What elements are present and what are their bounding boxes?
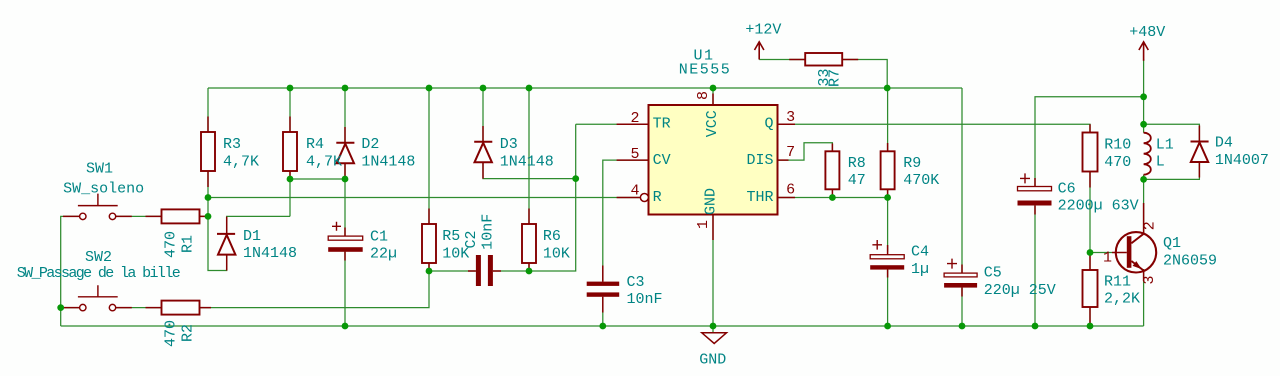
- diode D1: [217, 217, 235, 271]
- wire R2 right: [200, 307, 205, 309]
- svg-text:R11: R11: [1104, 273, 1131, 290]
- svg-text:R: R: [653, 189, 662, 206]
- svg-text:R6: R6: [543, 228, 561, 245]
- svg-text:NE555: NE555: [679, 61, 732, 78]
- junction R5 C2 node: [426, 268, 433, 275]
- U1 pin 5 stub: [617, 159, 649, 161]
- wire R5 node to C2: [429, 270, 476, 272]
- transistor Q1: [1112, 203, 1156, 281]
- wire R1 right to node: [200, 215, 209, 217]
- svg-text:TR: TR: [653, 116, 671, 133]
- svg-text:5: 5: [630, 146, 639, 163]
- svg-text:+48V: +48V: [1129, 24, 1165, 41]
- wire L1 node to Q1 collector: [1143, 179, 1145, 233]
- wire R9 column top: [887, 88, 889, 151]
- svg-text:2: 2: [1141, 221, 1158, 230]
- wire node to D2 bottom: [290, 178, 345, 180]
- svg-text:SW_soleno: SW_soleno: [63, 181, 144, 198]
- svg-text:1N4007: 1N4007: [1215, 152, 1269, 169]
- svg-text:D1: D1: [243, 228, 261, 245]
- wire C5 column from top bus: [961, 88, 963, 273]
- svg-text:4,7K: 4,7K: [306, 153, 342, 170]
- capacitor C2: [468, 255, 501, 286]
- svg-text:D2: D2: [361, 136, 379, 153]
- wire +48V stem lower: [1143, 59, 1145, 124]
- junction top bus R6: [526, 85, 533, 92]
- svg-text:470K: 470K: [903, 172, 939, 189]
- wire R6 column top: [528, 88, 530, 224]
- svg-text:1µ: 1µ: [911, 261, 929, 278]
- svg-text:Q1: Q1: [1163, 235, 1181, 252]
- wire R4 column top: [289, 88, 291, 132]
- junction top bus R7: [884, 85, 891, 92]
- svg-text:C2: C2: [463, 230, 480, 248]
- svg-text:1N4148: 1N4148: [500, 154, 554, 171]
- svg-text:22µ: 22µ: [370, 246, 397, 263]
- svg-text:SW1: SW1: [86, 161, 113, 178]
- wire R pin 4 line: [208, 197, 640, 199]
- wire base node to Q1 base: [1090, 252, 1112, 254]
- capacitor C3: [587, 266, 620, 313]
- resistor R11: [1083, 270, 1098, 307]
- wire node to D4: [1144, 124, 1200, 141]
- wire D2 column top: [344, 88, 346, 143]
- diode D2: [336, 127, 354, 179]
- svg-text:3: 3: [1141, 275, 1158, 284]
- wire C5 bottom to bus: [961, 288, 963, 326]
- svg-text:THR: THR: [746, 189, 773, 206]
- wire D2 bottom through C1 top: [344, 163, 346, 237]
- wire CV pin 5 to C3: [603, 160, 649, 282]
- junction TR node: [572, 175, 579, 182]
- svg-text:L1: L1: [1156, 137, 1174, 154]
- U1 pin 4 inversion circle: [640, 194, 648, 202]
- wire DIS pin 7 jog to R8: [778, 143, 833, 160]
- wire C2 to R6 node: [493, 270, 529, 272]
- capacitor C4: [870, 240, 904, 278]
- wire R11 bottom to bus: [1089, 307, 1091, 326]
- op-amp U1 NE555 body: [649, 105, 778, 215]
- junction R3 bottom pin4: [205, 194, 212, 201]
- diode D4: [1191, 126, 1209, 178]
- power +12V symbol: [755, 42, 764, 60]
- svg-text:SW_Passage de la bille: SW_Passage de la bille: [17, 265, 181, 282]
- svg-text:470: 470: [162, 231, 179, 258]
- diode D3: [474, 126, 492, 179]
- wire C1 bottom to bus: [344, 251, 346, 326]
- svg-text:10K: 10K: [543, 245, 570, 262]
- svg-text:GND: GND: [703, 188, 720, 215]
- wire R4 bottom to node: [289, 171, 291, 216]
- svg-text:C6: C6: [1058, 180, 1076, 197]
- wire top bus: [208, 87, 962, 89]
- U1 pin 6 stub: [778, 197, 796, 199]
- svg-text:2,2K: 2,2K: [1104, 291, 1140, 308]
- wire GND stem: [712, 326, 714, 333]
- svg-text:C4: C4: [911, 244, 929, 261]
- resistor R5: [422, 224, 436, 263]
- svg-text:C5: C5: [984, 265, 1002, 282]
- wire VCC pin 8: [712, 88, 714, 105]
- wire Q1 emitter to bus: [1143, 269, 1145, 326]
- wire Q pin 3 to R10: [778, 124, 1091, 132]
- svg-text:220µ 25V: 220µ 25V: [984, 282, 1056, 299]
- power +48V symbol: [1139, 42, 1148, 61]
- wire R7 right to top bus: [842, 60, 887, 89]
- resistor R2: [162, 301, 200, 315]
- wire R5 column top: [428, 88, 430, 224]
- svg-text:470: 470: [1104, 154, 1131, 171]
- wire D3 bottom to TR node: [483, 163, 576, 179]
- U1 pin 1 stub: [712, 215, 714, 241]
- junction top bus D3: [480, 85, 487, 92]
- wire THR pin 6 to R8 R9: [778, 197, 888, 199]
- svg-text:1N4148: 1N4148: [243, 245, 297, 262]
- resistor R7: [805, 53, 842, 66]
- svg-text:R5: R5: [442, 228, 460, 245]
- svg-text:1N4148: 1N4148: [361, 154, 415, 171]
- junction L1 bottom: [1140, 176, 1147, 183]
- junction R6 C2 node: [526, 268, 533, 275]
- svg-text:2N6059: 2N6059: [1163, 252, 1217, 269]
- svg-text:1: 1: [1103, 250, 1112, 267]
- svg-text:7: 7: [786, 144, 795, 161]
- U1 pin 7 stub: [778, 159, 789, 161]
- svg-text:VCC: VCC: [704, 110, 721, 137]
- junction L1 top: [1140, 121, 1147, 128]
- wire bottom bus: [61, 325, 1144, 327]
- svg-text:6: 6: [786, 182, 795, 199]
- svg-text:+12V: +12V: [745, 22, 781, 39]
- switch SW1: [63, 194, 132, 220]
- switch SW2: [63, 285, 132, 311]
- resistor R4: [283, 132, 297, 171]
- svg-text:R9: R9: [903, 155, 921, 172]
- wire TR pin 2: [576, 123, 649, 125]
- capacitor C6: [1018, 173, 1052, 214]
- wire R9 bottom through C4 to bus: [887, 189, 889, 326]
- wire +12V to R7: [759, 59, 805, 61]
- U1 pin 4 stub: [617, 197, 641, 199]
- svg-text:R7: R7: [826, 69, 843, 87]
- wire SW1 right to R1: [116, 215, 162, 217]
- svg-text:GND: GND: [699, 352, 726, 369]
- wire R10 bottom to base node: [1089, 172, 1091, 271]
- junction top bus R5: [426, 85, 433, 92]
- junction top bus R4: [287, 85, 294, 92]
- svg-text:C3: C3: [627, 274, 645, 291]
- junction bus C5: [959, 323, 966, 330]
- svg-text:10nF: 10nF: [627, 291, 663, 308]
- svg-text:2200µ 63V: 2200µ 63V: [1058, 198, 1139, 215]
- svg-text:4: 4: [630, 182, 639, 199]
- svg-text:1: 1: [695, 220, 712, 229]
- wire R5 bottom down to R2 line: [204, 263, 429, 308]
- svg-text:R8: R8: [848, 155, 866, 172]
- U1 pin 8 stub: [712, 94, 714, 106]
- resistor R6: [522, 224, 536, 263]
- junction R8 THR: [829, 194, 836, 201]
- svg-text:R1: R1: [179, 235, 196, 253]
- svg-text:8: 8: [695, 91, 712, 100]
- junction SW2 left: [57, 304, 64, 311]
- svg-text:R3: R3: [223, 136, 241, 153]
- resistor R9: [881, 151, 895, 189]
- wire C3 bottom to bus: [602, 297, 604, 326]
- svg-text:2: 2: [630, 110, 639, 127]
- resistor R10: [1083, 133, 1098, 172]
- svg-text:D4: D4: [1215, 135, 1233, 152]
- svg-text:10nF: 10nF: [480, 214, 497, 250]
- svg-text:C1: C1: [370, 228, 388, 245]
- junction bus C4: [884, 323, 891, 330]
- wire R3 column top: [207, 88, 209, 132]
- junction bus C6: [1032, 323, 1039, 330]
- wire L1 top stub: [1143, 124, 1145, 132]
- wire L1 bottom stub: [1143, 175, 1145, 180]
- U1 pin 2 stub: [617, 123, 649, 125]
- svg-text:Q: Q: [764, 116, 773, 133]
- wire D1 cathode to R4 column: [227, 216, 290, 232]
- wire SW2 right to R2: [116, 307, 162, 309]
- junction R9 THR: [884, 194, 891, 201]
- svg-text:R10: R10: [1104, 137, 1131, 154]
- wire left loop vertical: [61, 216, 80, 326]
- junction Q1 base node: [1087, 249, 1094, 256]
- wire GND pin 1 to bus: [712, 215, 714, 327]
- junction bus C3: [599, 323, 606, 330]
- junction top bus D2: [342, 85, 349, 92]
- svg-text:4,7K: 4,7K: [223, 153, 259, 170]
- junction bus R11: [1087, 323, 1094, 330]
- junction R4 bottom: [287, 176, 294, 183]
- wire R6 bottom to TR column: [529, 124, 576, 271]
- junction top bus VCC: [710, 85, 717, 92]
- junction bus C1: [342, 323, 349, 330]
- svg-text:SW2: SW2: [85, 249, 112, 266]
- capacitor C1: [328, 222, 363, 261]
- svg-text:R2: R2: [179, 324, 196, 342]
- wire D3 column top: [482, 88, 484, 142]
- junction +48V node: [1140, 93, 1147, 100]
- inductor L1: [1144, 133, 1151, 175]
- svg-text:3: 3: [786, 109, 795, 126]
- svg-text:DIS: DIS: [746, 152, 773, 169]
- svg-text:47: 47: [848, 172, 866, 189]
- resistor R1: [162, 209, 200, 223]
- svg-text:CV: CV: [653, 152, 671, 169]
- junction R1 node: [205, 213, 212, 220]
- wire +48V node to C6: [1035, 97, 1144, 187]
- svg-text:470: 470: [162, 320, 179, 347]
- junction bus GND: [710, 323, 717, 330]
- U1 pin 3 stub: [778, 123, 796, 125]
- svg-text:L: L: [1156, 154, 1165, 171]
- ground symbol: [702, 333, 727, 344]
- wire SW2 left: [61, 307, 80, 309]
- wire D4 bottom to L1 bottom node: [1144, 161, 1200, 179]
- svg-text:D3: D3: [500, 136, 518, 153]
- wire R3 column bottom to D1 anode: [208, 171, 227, 271]
- svg-text:R4: R4: [306, 136, 324, 153]
- wire C6 bottom to bus: [1034, 206, 1036, 326]
- resistor R3: [201, 132, 215, 171]
- junction D2 bottom: [342, 176, 349, 183]
- resistor R8: [825, 151, 839, 189]
- capacitor C5: [944, 259, 977, 297]
